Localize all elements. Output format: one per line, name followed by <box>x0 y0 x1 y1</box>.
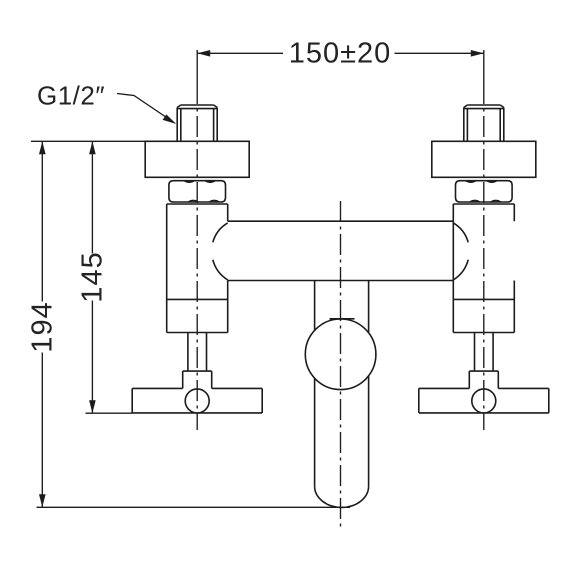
fillet arc lower right <box>453 260 468 280</box>
left wall flange <box>145 141 249 177</box>
spout right edge <box>368 281 370 487</box>
right handle front arm circle <box>472 389 496 413</box>
dimension 194 <box>27 141 59 507</box>
left hex nut <box>169 181 226 202</box>
horizontal connecting body <box>228 221 454 280</box>
dimension 145 <box>76 141 108 413</box>
dimension 150±20 <box>197 38 484 70</box>
svg-text:145: 145 <box>76 251 108 302</box>
left valve centerline <box>196 83 198 430</box>
left handle stem <box>188 333 207 372</box>
svg-text:150±20: 150±20 <box>289 38 392 70</box>
right handle stem <box>475 333 494 372</box>
left handle hub <box>183 371 212 388</box>
spout ball circle <box>305 319 376 390</box>
right G1/2 threaded fitting <box>464 105 504 141</box>
spout rounded bottom <box>315 486 369 507</box>
right handle hub <box>469 371 498 388</box>
fillet arc lower left <box>213 260 228 280</box>
spout left edge <box>314 281 316 487</box>
right extension line for 150 dimension <box>483 50 485 83</box>
spout centerline <box>340 201 342 528</box>
fillet arc upper left <box>213 223 228 242</box>
leader arrow for G1/2 <box>117 94 176 125</box>
left extension line for 150 dimension <box>196 50 198 83</box>
spout ball top chord <box>330 318 355 320</box>
fillet arc upper right <box>453 223 468 242</box>
right cross handle bar <box>419 388 549 413</box>
left G1/2 threaded fitting <box>177 105 217 141</box>
right valve centerline <box>483 83 485 430</box>
right hex nut <box>456 181 513 202</box>
svg-text:G1/2″: G1/2″ <box>37 81 105 111</box>
left valve body <box>167 204 228 333</box>
right wall flange <box>432 141 536 177</box>
extension line spout bottom <box>37 506 351 508</box>
label G1/2&quot; <box>37 81 105 111</box>
right valve body <box>453 204 514 333</box>
extension line flange top <box>31 140 145 142</box>
left handle front arm circle <box>185 389 209 413</box>
svg-text:194: 194 <box>27 301 59 352</box>
left cross handle bar <box>132 388 262 413</box>
extension line handle bottom <box>86 412 133 414</box>
